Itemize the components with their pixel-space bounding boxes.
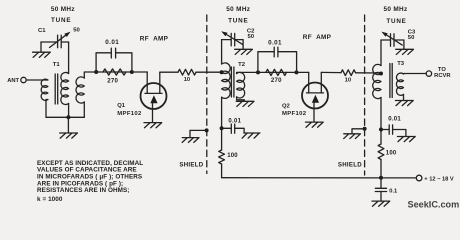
- svg-text:10: 10: [345, 77, 351, 83]
- transistor Q1 gate arrow: [150, 95, 157, 103]
- transformer T3 core: [390, 64, 392, 98]
- ground T2 secondary: [236, 101, 254, 106]
- svg-text:+ 12 ~ 18 V: + 12 ~ 18 V: [424, 176, 454, 182]
- capacitor 0.01 stage2 plates: [274, 47, 278, 57]
- ground Q2 gate: [305, 122, 323, 127]
- ground C2: [235, 49, 253, 54]
- transistor Q2 gate arrow: [312, 95, 319, 103]
- svg-text:SHIELD: SHIELD: [338, 161, 362, 168]
- wire C1 top right: [61, 41, 68, 43]
- transistor Q2 body: [302, 83, 328, 109]
- wire Q2 drain to R10b: [321, 71, 341, 73]
- ground C3: [396, 49, 414, 54]
- transformer T1 core: [55, 74, 58, 104]
- ground bypass3: [397, 137, 415, 142]
- wire R100b to rail: [380, 160, 382, 178]
- transformer T1 secondary winding: [61, 72, 69, 104]
- wire shield1 ground: [190, 130, 207, 137]
- svg-text:0.01: 0.01: [228, 118, 241, 124]
- wire T1 link top elbow: [84, 72, 96, 78]
- svg-text:C1: C1: [38, 28, 46, 34]
- svg-text:T1: T1: [53, 62, 61, 68]
- wire bypass2 left: [222, 127, 232, 129]
- wire T1 primary bottom lead: [46, 100, 48, 118]
- wire bypass3 left: [381, 129, 389, 131]
- capacitor C1 plates: [58, 35, 62, 48]
- wire T3 primary top to C3: [380, 40, 382, 66]
- resistor 100 stage2: [219, 150, 225, 164]
- wire RC2 to Q2 source: [297, 71, 309, 73]
- svg-text:50 MHz: 50 MHz: [51, 6, 75, 13]
- svg-text:100: 100: [386, 151, 397, 157]
- svg-text:TUNE: TUNE: [228, 17, 248, 24]
- node RC2 right junction: [295, 70, 299, 74]
- wire C2 top right: [235, 40, 243, 49]
- svg-text:0.01: 0.01: [105, 39, 119, 46]
- svg-text:RESISTANCES ARE IN OHMS;: RESISTANCES ARE IN OHMS;: [37, 187, 130, 194]
- transistor Q2 source lead: [308, 72, 310, 93]
- wire bypass3 right: [393, 130, 406, 137]
- wire R100a to rail: [221, 164, 223, 178]
- wire T2 primary bottom to R100: [221, 97, 223, 150]
- wire T1 secondary bottom to rail: [68, 104, 70, 118]
- wire T2 primary top to C2: [221, 40, 223, 64]
- wire C3 top left: [381, 39, 390, 41]
- svg-text:TUNE: TUNE: [51, 17, 71, 24]
- shield partition 2 dashed line: [364, 15, 366, 175]
- transistor Q2 channel bar: [307, 92, 324, 94]
- svg-text:SHIELD: SHIELD: [179, 161, 203, 168]
- wire C1 left to ground: [40, 42, 42, 52]
- svg-text:270: 270: [107, 78, 118, 85]
- capacitor C3 plates: [391, 34, 395, 46]
- svg-text:RF AMP: RF AMP: [140, 36, 169, 43]
- wire gate line stage2: [258, 71, 297, 73]
- transistor Q2 drain lead: [320, 72, 322, 93]
- node RC1 left junction: [94, 70, 98, 74]
- node RC2 left junction: [256, 70, 260, 74]
- node stage1 rail junction: [66, 115, 70, 119]
- wire C 0.01 branch stage2: [258, 52, 297, 73]
- transistor Q2 gate stem: [313, 103, 315, 122]
- wire T3 secondary top to RCVR: [404, 73, 427, 76]
- wire rail to ground stem: [67, 117, 69, 133]
- node TO RCVR terminal: [426, 71, 431, 76]
- ground T3 secondary: [395, 101, 413, 106]
- wire bypass2 right: [235, 128, 244, 133]
- svg-text:RCVR: RCVR: [434, 73, 451, 79]
- transformer T1 link winding: [76, 77, 84, 103]
- transistor Q1 gate stem: [152, 103, 154, 122]
- transistor Q1 body: [141, 83, 167, 109]
- svg-text:0.01: 0.01: [268, 40, 282, 47]
- svg-text:MPF102: MPF102: [282, 111, 307, 117]
- ground C1: [33, 52, 51, 57]
- wire T1 secondary top to C1: [68, 42, 70, 74]
- transformer T3 primary winding: [373, 64, 381, 98]
- wire T3 primary bottom to R100b: [380, 98, 382, 145]
- wire rail to 0.1 cap: [380, 178, 382, 188]
- wire T2 secondary top to RC2: [237, 72, 258, 73]
- wire C 0.01 branch stage1: [96, 53, 132, 72]
- ground shield2: [344, 134, 361, 139]
- node bypass3 junction: [379, 128, 383, 132]
- shield partition 1 dashed line: [206, 15, 208, 174]
- wire stage1 ground rail: [46, 116, 84, 118]
- node RC1 right junction: [130, 70, 134, 74]
- transistor Q1 drain lead: [159, 72, 161, 93]
- transistor Q1 source lead: [146, 72, 148, 93]
- wire 0.1 cap to ground: [380, 192, 382, 201]
- svg-text:RF AMP: RF AMP: [303, 34, 332, 41]
- wire C1 top left: [41, 41, 58, 43]
- node ANT input terminal: [21, 77, 26, 82]
- ground bypass2: [242, 133, 260, 138]
- wire C3 top right: [394, 40, 404, 49]
- svg-text:10: 10: [184, 77, 190, 83]
- wire T2 secondary bottom: [237, 97, 245, 101]
- capacitor C2 trimmer arrow: [227, 35, 243, 45]
- transformer T3 secondary winding: [396, 73, 403, 95]
- svg-text:Q2: Q2: [282, 104, 290, 110]
- wire gate line stage1: [96, 71, 132, 73]
- node T2 primary tap: [220, 70, 224, 74]
- capacitor 0.01 bypass2 plates: [231, 124, 234, 133]
- node bypass2 junction: [220, 126, 224, 130]
- transformer T2 secondary winding: [237, 72, 245, 98]
- svg-text:TUNE: TUNE: [386, 18, 406, 25]
- svg-text:50 MHz: 50 MHz: [226, 6, 250, 13]
- wire C2 top left: [222, 39, 231, 41]
- resistor 100 stage3: [378, 144, 384, 160]
- wire shield2 ground: [352, 129, 365, 134]
- transformer T1 primary winding: [41, 79, 48, 100]
- svg-text:50: 50: [73, 28, 80, 34]
- wire T1 link bottom to rail: [83, 102, 85, 117]
- node shield1 ground junction: [205, 128, 209, 132]
- ground 0.1 cap: [372, 201, 390, 206]
- wire RC1 to Q1 source: [132, 71, 147, 73]
- svg-text:0.01: 0.01: [388, 117, 401, 123]
- capacitor 0.01 stage1 plates: [111, 48, 115, 58]
- wire Q1 drain to R10: [160, 71, 178, 73]
- svg-text:0.1: 0.1: [389, 189, 397, 195]
- transformer T2 primary winding: [222, 63, 231, 99]
- svg-text:MPF102: MPF102: [117, 111, 142, 117]
- capacitor 0.1 plates: [375, 188, 386, 191]
- svg-text:SeekIC.com: SeekIC.com: [408, 199, 460, 209]
- resistor 270 stage1: [103, 69, 126, 75]
- ground stage1 rail: [60, 133, 78, 138]
- svg-text:270: 270: [271, 77, 282, 84]
- ground shield1: [182, 138, 199, 143]
- node shield2 ground junction: [363, 127, 367, 131]
- capacitor C3 trimmer arrow: [387, 35, 403, 45]
- svg-text:100: 100: [227, 153, 238, 159]
- resistor 270 stage2: [266, 69, 287, 75]
- ground Q1 gate: [144, 123, 162, 128]
- node rail T3 junction: [379, 176, 383, 180]
- svg-text:Q1: Q1: [117, 103, 126, 109]
- svg-text:ANT: ANT: [7, 78, 19, 84]
- resistor 10 stage2: [341, 70, 356, 76]
- capacitor C1 trimmer arrow: [50, 35, 66, 47]
- wire T3 secondary bottom: [403, 94, 405, 100]
- svg-text:k = 1000: k = 1000: [37, 196, 63, 203]
- transistor Q1 channel bar: [145, 92, 162, 94]
- svg-text:T3: T3: [397, 61, 405, 67]
- capacitor C2 plates: [231, 33, 235, 46]
- wire R10b to T3 tap: [356, 72, 382, 74]
- node supply terminal: [416, 175, 422, 181]
- svg-text:T2: T2: [238, 62, 246, 68]
- wire R10 to T2 tap: [196, 71, 222, 73]
- svg-text:50: 50: [248, 34, 255, 40]
- wire ANT to T1 primary: [26, 79, 48, 81]
- node T3 primary tap: [379, 72, 383, 76]
- wire supply rail: [222, 177, 417, 179]
- svg-text:50 MHz: 50 MHz: [383, 6, 407, 13]
- resistor 10 stage1: [178, 69, 196, 75]
- transformer T2 core: [231, 67, 234, 97]
- svg-text:50: 50: [408, 35, 415, 41]
- capacitor 0.01 bypass3 plates: [389, 125, 392, 134]
